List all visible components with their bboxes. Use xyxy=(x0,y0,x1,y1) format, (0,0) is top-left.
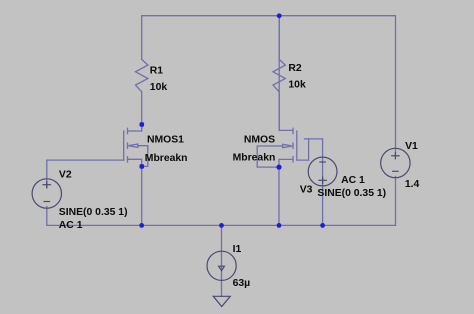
svg-text:V1: V1 xyxy=(405,141,418,152)
svg-text:Mbreakn: Mbreakn xyxy=(145,153,188,164)
svg-text:V2: V2 xyxy=(59,169,72,180)
svg-text:SINE(0 0.35 1): SINE(0 0.35 1) xyxy=(59,207,128,218)
svg-text:AC 1: AC 1 xyxy=(341,175,365,186)
svg-text:I1: I1 xyxy=(233,244,242,255)
svg-text:63µ: 63µ xyxy=(233,278,251,289)
svg-text:1.4: 1.4 xyxy=(405,179,420,190)
svg-text:R2: R2 xyxy=(288,63,302,74)
svg-text:NMOS: NMOS xyxy=(244,134,275,145)
svg-text:SINE(0 0.35 1): SINE(0 0.35 1) xyxy=(317,188,386,199)
svg-text:Mbreakn: Mbreakn xyxy=(233,153,276,164)
svg-text:10k: 10k xyxy=(150,82,168,93)
svg-text:V3: V3 xyxy=(300,185,313,196)
svg-text:10k: 10k xyxy=(288,79,306,90)
svg-text:NMOS1: NMOS1 xyxy=(147,134,184,145)
svg-text:AC 1: AC 1 xyxy=(59,220,83,231)
svg-text:R1: R1 xyxy=(150,66,164,77)
